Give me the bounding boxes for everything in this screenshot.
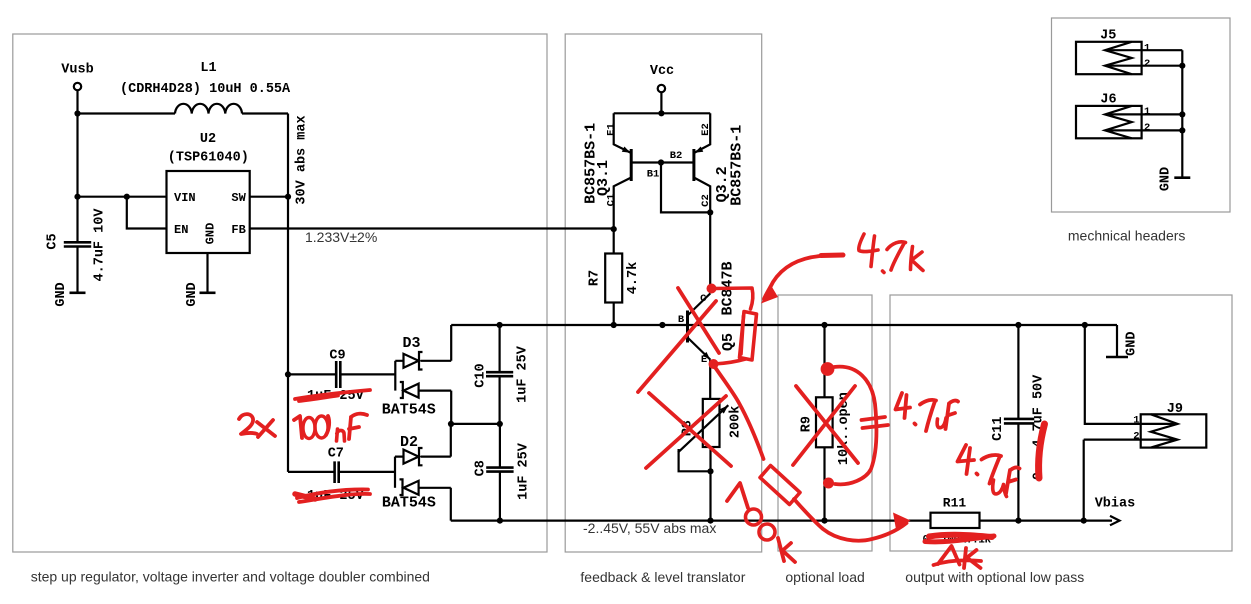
- wire C7 branch: [288, 471, 395, 473]
- svg-text:1: 1: [1133, 415, 1139, 427]
- svg-text:2: 2: [1144, 58, 1150, 70]
- wire header ground bus: [1181, 50, 1183, 178]
- svg-text:J5: J5: [1100, 29, 1116, 44]
- junction mid rail left: [448, 421, 454, 427]
- block frame: mechanical headers section: [1052, 18, 1231, 212]
- resistor R7: [613, 229, 615, 253]
- svg-text:2: 2: [1144, 122, 1150, 134]
- junction mid rail right: [497, 421, 503, 427]
- ground symbol U2: [200, 291, 216, 294]
- wire J6 pin1: [1142, 113, 1183, 115]
- wire FB feedback line: [250, 227, 614, 229]
- svg-text:GND: GND: [185, 282, 200, 306]
- wire Vcc stub: [660, 92, 662, 113]
- svg-text:E1: E1: [606, 123, 618, 136]
- junction EN branch: [124, 194, 130, 200]
- svg-text:B2: B2: [670, 150, 683, 162]
- red X over R9 with bypass cap arc: [822, 364, 833, 375]
- wire J6 pin2: [1142, 129, 1183, 131]
- wire bottom negative rail: [451, 519, 931, 521]
- svg-text:C2: C2: [700, 194, 712, 207]
- capacitor C10: [499, 325, 501, 424]
- resistor R11: [931, 513, 980, 528]
- svg-text:U2: U2: [200, 132, 216, 147]
- resistor R9: [823, 325, 825, 397]
- wire EN branch: [127, 197, 167, 229]
- svg-text:4.7k: 4.7k: [626, 262, 641, 294]
- svg-text:optional load: optional load: [785, 569, 864, 585]
- inductor L1: [175, 104, 242, 114]
- wire top rail left of L1: [78, 112, 176, 114]
- junction C8 bottom: [497, 518, 503, 524]
- svg-text:E: E: [701, 354, 707, 366]
- svg-text:feedback & level translator: feedback & level translator: [580, 569, 745, 585]
- capacitor C9: [288, 373, 395, 375]
- svg-text:D2: D2: [400, 434, 418, 451]
- svg-text:-2..45V, 55V abs max: -2..45V, 55V abs max: [583, 520, 716, 536]
- wire emitter rail Q3: [614, 112, 711, 114]
- transistor Q5 (BC847B npn): [686, 311, 689, 343]
- junction R8 bottom on rail: [707, 518, 713, 524]
- resistor R8 trimmer: [703, 399, 720, 447]
- wire top rail right of L1: [242, 112, 288, 114]
- svg-text:1: 1: [1144, 43, 1150, 55]
- connector J5: [1076, 42, 1142, 74]
- svg-text:J6: J6: [1100, 93, 1116, 108]
- wire Q5 emitter down: [709, 360, 711, 399]
- block frame: output low pass section: [890, 295, 1232, 551]
- junction C9 branch: [285, 371, 291, 377]
- wire bias rail: [451, 324, 1117, 326]
- capacitor C5: [64, 242, 91, 246]
- diode D2 lower (BAT54S): [400, 479, 451, 520]
- wire U2 GND pin: [206, 253, 208, 293]
- svg-text:1.233V±2%: 1.233V±2%: [305, 229, 377, 245]
- svg-text:EN: EN: [174, 223, 188, 237]
- junction VIN rail left: [74, 194, 80, 200]
- svg-text:(TSP61040): (TSP61040): [168, 151, 249, 166]
- svg-text:GND: GND: [1124, 332, 1139, 356]
- junction SW node: [285, 194, 291, 200]
- red 100k rewire curve with sketched resistor and arrow to R11: [714, 365, 764, 459]
- wire SW vertical rail: [287, 114, 289, 472]
- svg-text:Vbias: Vbias: [1095, 497, 1136, 512]
- svg-text:4.7uF 10V: 4.7uF 10V: [93, 208, 108, 282]
- svg-text:mechnical headers: mechnical headers: [1068, 228, 1186, 244]
- wire doubler mid rail: [451, 423, 500, 425]
- connector J6: [1076, 106, 1142, 138]
- svg-text:B: B: [678, 314, 685, 326]
- red strike over C9 value: [295, 390, 370, 399]
- svg-text:Q3.1: Q3.1: [595, 160, 612, 196]
- svg-text:BAT54S: BAT54S: [382, 402, 436, 419]
- block frame: optional load section: [778, 295, 872, 551]
- junction C10 top: [497, 322, 503, 328]
- diode D3 upper (BAT54S): [394, 361, 396, 391]
- capacitor C8: [499, 424, 501, 521]
- svg-text:30V abs max: 30V abs max: [295, 115, 310, 204]
- svg-text:C9: C9: [329, 349, 345, 364]
- junction J6 pin1 bus: [1179, 111, 1185, 117]
- transistor Q3.2 (BC857BS-1 pnp): [694, 113, 710, 153]
- wire Vbias output: [980, 519, 1113, 521]
- diode D3 lower (BAT54S): [400, 382, 451, 424]
- red X over Q5: [638, 288, 719, 392]
- red strike over R11 value: [929, 535, 992, 537]
- wire J9 pin2 branch: [1084, 440, 1141, 521]
- svg-text:D3: D3: [402, 335, 420, 352]
- junction Vcc rail: [658, 110, 664, 116]
- red note 100 n F: [294, 416, 302, 438]
- block frame: feedback and level translator section: [565, 34, 762, 552]
- svg-text:BC857BS-1: BC857BS-1: [729, 125, 746, 206]
- svg-text:C10: C10: [474, 363, 489, 387]
- wire VIN rail: [78, 196, 167, 198]
- svg-text:step up regulator, voltage inv: step up regulator, voltage inverter and …: [31, 569, 430, 585]
- ground symbol headers: [1174, 176, 1190, 179]
- svg-text:C11: C11: [991, 417, 1006, 441]
- wire J5 pin1: [1142, 49, 1183, 51]
- wire J5 pin2: [1142, 65, 1183, 67]
- junction B1: [658, 159, 664, 165]
- junction FB node: [611, 226, 617, 232]
- ground symbol C5: [70, 291, 86, 294]
- wire C2 down to Q5: [709, 212, 711, 293]
- red X over R8: [646, 393, 731, 468]
- red sketched resistor 4.7k across Q5: [707, 284, 717, 294]
- svg-text:VIN: VIN: [174, 191, 196, 205]
- svg-text:C: C: [700, 293, 707, 305]
- svg-text:R7: R7: [587, 270, 602, 286]
- svg-text:GND: GND: [204, 223, 218, 245]
- red label 1k: [934, 560, 982, 565]
- capacitor C11: [1017, 325, 1019, 521]
- svg-text:2: 2: [1133, 431, 1139, 443]
- junction Q5 base branch: [659, 322, 665, 328]
- junction R7 bottom on rail: [611, 322, 617, 328]
- svg-text:Vcc: Vcc: [650, 64, 674, 79]
- wire left vertical rail to C5: [76, 114, 78, 243]
- svg-text:R11: R11: [943, 496, 967, 511]
- svg-text:BAT54S: BAT54S: [382, 495, 436, 512]
- svg-text:C8: C8: [474, 460, 489, 476]
- capacitor C7: [335, 461, 339, 483]
- svg-text:SW: SW: [231, 191, 246, 205]
- ground symbol output: [1116, 325, 1118, 357]
- red label 4.7k with arrow: [821, 253, 843, 259]
- red note 2x: [239, 414, 257, 434]
- svg-text:GND: GND: [1158, 167, 1173, 191]
- junction C2: [707, 209, 713, 215]
- svg-text:Vusb: Vusb: [61, 63, 93, 78]
- svg-text:Q5: Q5: [720, 333, 737, 351]
- svg-text:C7: C7: [328, 447, 344, 462]
- op-amp U2 box (TSP61040): [167, 171, 250, 253]
- svg-text:B1: B1: [647, 169, 660, 181]
- junction Vusb rail: [74, 110, 80, 116]
- svg-text:1uF 25V: 1uF 25V: [517, 442, 532, 500]
- wire SW pin: [250, 196, 288, 198]
- junction J5 pin2 bus: [1179, 63, 1185, 69]
- svg-text:E2: E2: [700, 123, 712, 136]
- svg-text:J9: J9: [1167, 402, 1183, 417]
- red strike over C11 value: [1039, 424, 1045, 478]
- wire J9 pin1 branch: [1085, 325, 1141, 424]
- node Vbias arrow: [1110, 516, 1120, 525]
- red strikes over C7 value: [297, 489, 368, 498]
- block frame: step-up regulator section: [13, 34, 547, 552]
- transistor Q3.1 (BC857BS-1 pnp): [614, 113, 632, 153]
- svg-text:1: 1: [1144, 106, 1150, 118]
- diode D2 upper (BAT54S): [394, 457, 396, 488]
- svg-text:GND: GND: [54, 282, 69, 306]
- svg-text:C5: C5: [46, 233, 61, 249]
- junction J6 pin2 bus: [1179, 127, 1185, 133]
- svg-text:R9: R9: [799, 416, 814, 432]
- svg-text:(CDRH4D28) 10uH 0.55A: (CDRH4D28) 10uH 0.55A: [120, 82, 291, 97]
- svg-text:output with optional low pass: output with optional low pass: [905, 569, 1084, 585]
- red label 4.7uF load: [896, 393, 911, 418]
- wire base link Q3.1-Q3.2: [631, 161, 694, 163]
- svg-text:FB: FB: [231, 223, 245, 237]
- svg-text:1uF 25V: 1uF 25V: [516, 345, 531, 403]
- wire B1 to C2 tie: [661, 163, 710, 213]
- svg-text:C1: C1: [606, 194, 618, 207]
- svg-text:L1: L1: [200, 61, 216, 76]
- wire Vusb stub: [76, 90, 78, 114]
- connector J9: [1141, 414, 1207, 447]
- red label 4.7uF output: [958, 445, 975, 474]
